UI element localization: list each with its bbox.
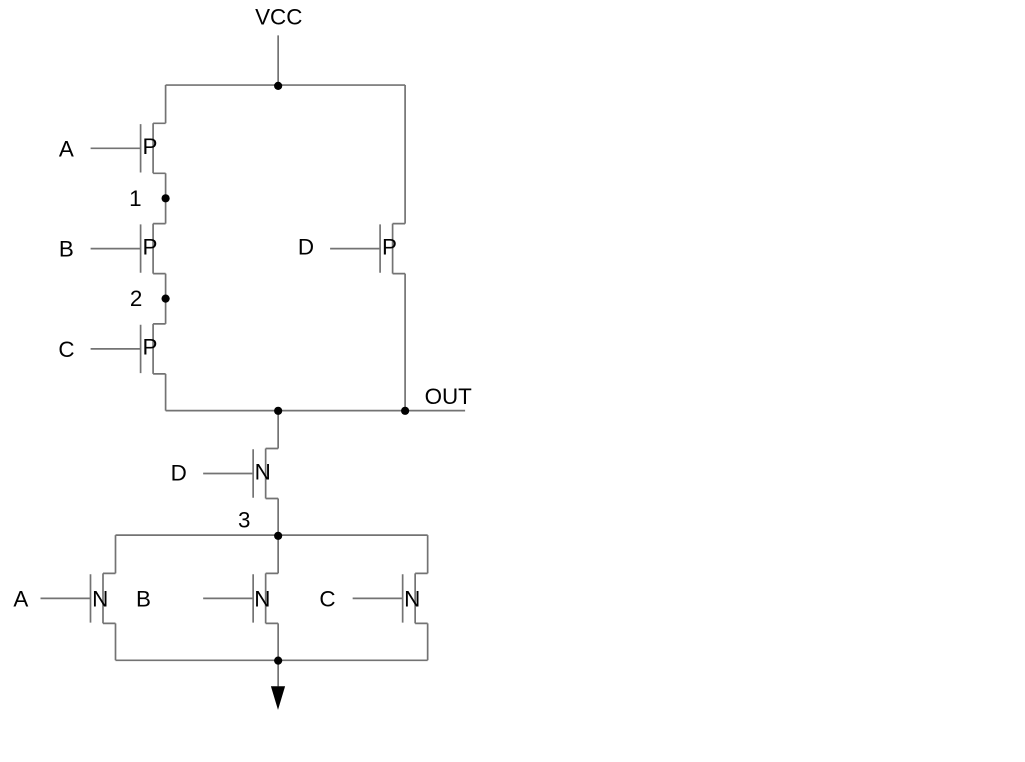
svg-text:B: B [136,586,151,611]
svg-text:VCC: VCC [255,5,302,30]
svg-text:OUT: OUT [425,384,473,409]
svg-text:A: A [59,136,74,161]
svg-text:2: 2 [130,286,142,311]
svg-text:C: C [319,586,335,611]
svg-text:A: A [13,586,28,611]
svg-text:D: D [171,461,187,486]
svg-text:N: N [255,460,271,485]
svg-text:3: 3 [238,507,250,532]
svg-text:N: N [404,586,420,611]
svg-text:N: N [92,586,108,611]
svg-text:N: N [254,586,270,611]
svg-text:P: P [143,335,158,360]
svg-text:P: P [143,134,158,159]
svg-text:B: B [59,237,74,262]
svg-text:P: P [382,234,397,259]
svg-text:P: P [143,234,158,259]
svg-text:C: C [58,337,74,362]
svg-text:D: D [298,234,314,259]
svg-text:1: 1 [129,186,141,211]
